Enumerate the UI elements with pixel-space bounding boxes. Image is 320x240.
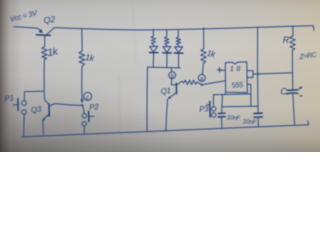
junction at node a: [201, 84, 203, 86]
resistor 1k (R1 under Q2): [42, 47, 48, 60]
wire bottom pins to P3: [213, 93, 248, 96]
wire C2 to ground rail: [257, 118, 259, 127]
connector P3 tick: [209, 102, 211, 118]
resistor R: [290, 36, 296, 51]
transistor Q2 base bar: [36, 34, 50, 36]
wire top supply rail: [54, 26, 313, 30]
wire C1 to ground rail: [221, 117, 223, 128]
wire R3 to node a: [202, 63, 203, 74]
wire top rail end tick: [313, 26, 314, 31]
wire D1 to bus: [152, 53, 154, 67]
junction on main vertical: [257, 73, 259, 75]
diode D2: [163, 47, 171, 53]
wire R2 down to node c arrow: [81, 66, 83, 100]
transistor Q1 base bar: [175, 83, 177, 93]
pin bracket right (pins tied): [247, 71, 253, 78]
wire rail to main vertical: [256, 27, 259, 113]
wire C to ground rail: [293, 94, 295, 125]
pin stub bottom left: [224, 92, 226, 94]
resistor branch 1: [151, 36, 156, 46]
junction at node c / P2: [81, 104, 83, 106]
connector P3 pins: [212, 107, 216, 111]
transistor Q2 collector: [47, 28, 55, 35]
wire bracket to RC junction: [253, 73, 293, 74]
arrowhead at node c: [81, 99, 84, 103]
connector P2 tick: [88, 111, 90, 121]
wire line b under 555: [223, 105, 259, 108]
transistor Q1 collector: [177, 81, 184, 85]
resistor 1k (R2): [79, 51, 85, 67]
capacitor C2 (10nF): [254, 113, 263, 117]
wire P3 drop: [212, 95, 214, 107]
node c circle: [84, 92, 92, 100]
wire P1 bottom to ground rail: [23, 114, 26, 136]
node a circle: [198, 74, 205, 81]
wire D2 to bus: [166, 53, 168, 67]
wire to capacitor C1: [221, 94, 224, 113]
ground rail end tick: [307, 121, 310, 125]
transistor Q2 (PNP) emitter arrowhead: [39, 29, 43, 33]
wire line a right bend: [248, 93, 251, 95]
wire Vcc to Q2 emitter: [14, 27, 41, 32]
pin stub left top with plus: [221, 69, 226, 71]
wire R1 to Q3 base: [44, 60, 49, 104]
transistor Q3 base bar: [48, 104, 50, 117]
wire bus to node b: [170, 68, 172, 72]
resistor Q1 collector (horizontal): [184, 80, 198, 85]
resistor 1k (R3 to node a): [201, 49, 207, 63]
connector P1 pins: [22, 101, 27, 106]
wire Q3 emitter to ground rail: [42, 121, 45, 134]
capacitor C: [287, 89, 297, 92]
wire ground rail: [22, 125, 309, 137]
LED branch 1: wire from rail: [152, 29, 154, 36]
transistor Q3 collector: [49, 104, 82, 107]
wire D3 to bus: [178, 53, 180, 67]
LED branch 3: wire from rail: [177, 30, 179, 37]
node b circle: [169, 72, 176, 79]
resistor branch 3: [176, 37, 181, 47]
diode D1: [150, 46, 158, 52]
wire rail to R: [292, 26, 294, 36]
transistor Q3 emitter: [44, 114, 50, 120]
wire bus to ground rail: [146, 67, 148, 131]
pin jog right lower: [248, 84, 251, 106]
IC 555 box: [225, 62, 247, 93]
polarity arrow at C: [298, 87, 302, 90]
wire rail to R3: [203, 28, 205, 49]
wire diode bus: [148, 66, 181, 69]
wire node b to Q1 base: [171, 79, 176, 85]
resistor branch 2: [164, 37, 169, 47]
wire R to capacitor C: [291, 50, 293, 90]
wire Q1 emitter to ground rail: [166, 99, 168, 131]
wire P1 top to base node: [24, 91, 44, 101]
capacitor C1 (10nF): [218, 113, 225, 117]
transistor Q1 emitter: [170, 93, 177, 98]
wire P2 bottom to ground rail: [83, 126, 85, 134]
diode D3: [175, 47, 183, 53]
connector P2 pins: [83, 106, 85, 114]
wire Q2 base down: [44, 35, 46, 46]
wire resistor to node a and 555: [197, 81, 225, 85]
wire rail to R2: [81, 29, 83, 51]
connector P1 tick: [13, 104, 18, 106]
paper crease: [119, 76, 121, 152]
LED branch 2: wire from rail: [166, 30, 168, 37]
paper background: [0, 0, 320, 152]
